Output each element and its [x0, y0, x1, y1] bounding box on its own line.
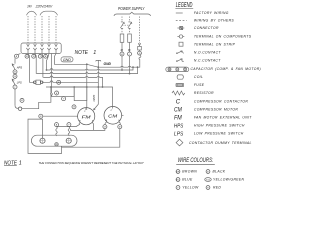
svg-text:TERMINAL ON STRIP: TERMINAL ON STRIP — [194, 43, 236, 47]
svg-text:WIRE COLOURS:: WIRE COLOURS: — [178, 158, 214, 164]
svg-text:HPS: HPS — [174, 123, 183, 129]
svg-text:THE CONNECTION SEQUENCE DOESN': THE CONNECTION SEQUENCE DOESN'T REPRESEN… — [39, 161, 144, 165]
svg-text:BROWN: BROWN — [182, 170, 197, 174]
svg-text:CAPACITOR (COMP. & FAN MOTOR): CAPACITOR (COMP. & FAN MOTOR) — [191, 67, 261, 71]
svg-text:BR: BR — [176, 172, 180, 174]
svg-text:POWER SUPPLY: POWER SUPPLY — [118, 6, 145, 11]
svg-text:CM: CM — [174, 107, 182, 113]
svg-text:COMPRESSOR CONTACTOR: COMPRESSOR CONTACTOR — [194, 100, 248, 104]
svg-text:N.C.CONTACT: N.C.CONTACT — [194, 58, 221, 62]
svg-text:LPS: LPS — [174, 132, 183, 138]
svg-text:LPS: LPS — [17, 81, 22, 85]
svg-text:1: 1 — [19, 160, 22, 166]
svg-text:YELLOW: YELLOW — [182, 186, 199, 190]
svg-text:RED: RED — [213, 186, 221, 190]
svg-text:GND: GND — [63, 58, 72, 62]
svg-text:1: 1 — [93, 50, 96, 56]
svg-text:C: C — [176, 100, 181, 106]
svg-text:BLACK: BLACK — [213, 170, 226, 174]
svg-text:YELLOW/GREEN: YELLOW/GREEN — [213, 178, 245, 182]
svg-text:TERMINAL ON COMPONENTS: TERMINAL ON COMPONENTS — [194, 35, 252, 39]
svg-text:HIGH PRESSURE SWITCH: HIGH PRESSURE SWITCH — [194, 124, 245, 128]
svg-text:LOW PRESSURE SWITCH: LOW PRESSURE SWITCH — [194, 132, 244, 136]
svg-text:R: R — [106, 120, 108, 122]
svg-text:GND: GND — [92, 95, 96, 103]
svg-text:FUSE: FUSE — [194, 83, 205, 87]
svg-text:FACTORY WIRING: FACTORY WIRING — [194, 11, 229, 15]
svg-text:WIRING BY OTHERS: WIRING BY OTHERS — [194, 19, 234, 23]
svg-text:FAN MOTOR EXTERNAL UNIT: FAN MOTOR EXTERNAL UNIT — [194, 115, 252, 119]
svg-text:24V: 24V — [26, 4, 32, 8]
svg-text:FM: FM — [174, 115, 182, 121]
svg-text:Y/G: Y/G — [206, 180, 211, 182]
svg-text:FM: FM — [82, 114, 91, 119]
svg-text:HPS: HPS — [17, 65, 23, 69]
svg-text:NOTE: NOTE — [75, 50, 89, 56]
svg-text:BLUE: BLUE — [182, 178, 193, 182]
svg-text:CONNECTOR: CONNECTOR — [194, 26, 219, 30]
svg-text:R: R — [207, 188, 209, 190]
svg-text:CM: CM — [108, 113, 117, 118]
svg-text:GND: GND — [104, 62, 112, 66]
svg-text:RESISTOR: RESISTOR — [194, 91, 214, 95]
svg-text:COIL: COIL — [194, 75, 203, 79]
svg-text:COMPRESSOR MOTOR: COMPRESSOR MOTOR — [194, 107, 238, 111]
svg-text:220V/240V: 220V/240V — [35, 4, 53, 8]
svg-text:C: C — [84, 111, 86, 113]
svg-text:N.O.CONTACT: N.O.CONTACT — [194, 51, 222, 55]
svg-text:C: C — [111, 110, 113, 112]
svg-text:BL: BL — [176, 180, 179, 182]
svg-text:CONTACTOR DUMMY TERMINAL: CONTACTOR DUMMY TERMINAL — [189, 141, 252, 145]
svg-text:R: R — [79, 121, 81, 123]
